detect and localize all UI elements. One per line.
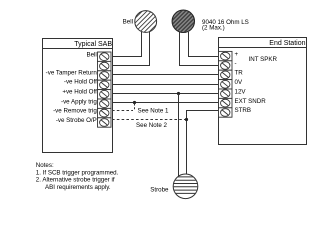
svg-text:Typical SAB: Typical SAB [74, 41, 112, 48]
wire speaker plus leg [189, 32, 220, 57]
node junction note2 [185, 118, 188, 121]
wire -ve apply trig to EXT SNDR [112, 102, 219, 104]
svg-text:-ve Apply trig: -ve Apply trig [61, 99, 97, 106]
svg-text:-ve Remove trig: -ve Remove trig [53, 108, 97, 115]
svg-text:See Note 2: See Note 2 [136, 122, 168, 129]
terminal SAB remove trig [98, 108, 112, 117]
terminal SAB strobe O/P [98, 118, 112, 127]
svg-text:+ve Hold Off: +ve Hold Off [62, 89, 97, 96]
wire speaker minus leg [180, 32, 220, 66]
terminal SAB bell B [98, 61, 112, 70]
svg-text:2. Alternative strobe trigger: 2. Alternative strobe trigger if [36, 177, 115, 184]
terminal SAB tamper [98, 71, 112, 80]
terminal ES 12V [219, 89, 233, 98]
speaker circle LS [154, 5, 216, 35]
wire bell leg left [112, 32, 142, 57]
svg-text:-: - [235, 60, 237, 67]
box Typical SAB [43, 39, 113, 153]
terminal SAB bell A [98, 52, 112, 61]
wire dashed strobe O/P note2 [112, 119, 187, 121]
wire dashed -ve remove trig [112, 110, 133, 112]
wire +ve hold off to 12V [112, 93, 219, 95]
node junction note1 [133, 101, 136, 104]
wire dashed note1 riser [134, 104, 136, 111]
terminal ES STRB [219, 108, 233, 117]
wire strobe supply drop [178, 94, 180, 177]
wire tamper to TR [112, 74, 219, 76]
svg-text:INT SPKR: INT SPKR [249, 56, 278, 63]
terminal ES TR [219, 70, 233, 79]
terminal ES - int spkr [219, 61, 233, 70]
svg-text:Notes:: Notes: [36, 162, 54, 169]
wire bell leg right [112, 32, 150, 66]
svg-text:TR: TR [235, 70, 244, 77]
svg-text:Bell: Bell [123, 18, 133, 25]
box End Station [219, 38, 307, 145]
svg-text:12V: 12V [235, 88, 247, 95]
svg-text:See Note 1: See Note 1 [138, 107, 170, 114]
svg-text:-ve Hold Off: -ve Hold Off [64, 79, 97, 86]
terminal SAB hold off +ve [98, 90, 112, 99]
svg-text:Bell: Bell [86, 52, 96, 59]
svg-text:0V: 0V [235, 79, 243, 86]
svg-text:EXT SNDR: EXT SNDR [235, 98, 267, 105]
svg-text:1. If SCB trigger programmed.: 1. If SCB trigger programmed. [36, 169, 119, 176]
terminal ES 0V [219, 80, 233, 89]
terminal ES + int spkr [219, 51, 233, 60]
terminal SAB hold off -ve [98, 80, 112, 89]
svg-text:-ve Tamper Return: -ve Tamper Return [46, 69, 98, 76]
wire -ve hold off to 0V [112, 84, 219, 86]
svg-text:+: + [235, 51, 239, 58]
bell circle [118, 6, 175, 35]
terminal ES EXT SNDR [219, 98, 233, 107]
svg-text:End Station: End Station [269, 40, 305, 47]
svg-text:STRB: STRB [235, 107, 252, 114]
svg-text:(2 Max.): (2 Max.) [202, 24, 225, 31]
svg-text:-ve Strobe O/P: -ve Strobe O/P [56, 117, 97, 124]
node junction 12V strobe tap [177, 92, 180, 95]
terminal SAB apply trig [98, 99, 112, 108]
strobe circle [172, 174, 199, 199]
svg-text:Strobe: Strobe [150, 186, 169, 193]
svg-text:ABI requirements apply.: ABI requirements apply. [45, 184, 111, 191]
wire STRB to strobe [187, 111, 220, 176]
